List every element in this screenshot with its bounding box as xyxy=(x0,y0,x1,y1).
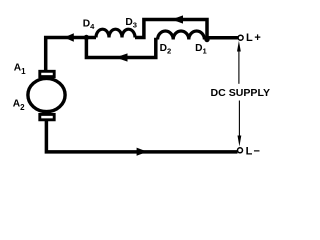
arrow current into armature (pointing left) xyxy=(64,33,74,41)
svg-text:A1: A1 xyxy=(14,63,26,76)
coil D2-D1 field winding xyxy=(158,31,205,40)
svg-text:D4: D4 xyxy=(83,19,95,32)
wire armature top lead and left horizontal to D4 xyxy=(46,38,96,72)
coil D4-D3 field winding xyxy=(96,29,135,37)
brush bottom rectangle xyxy=(40,114,54,119)
svg-text:DC SUPPLY: DC SUPPLY xyxy=(211,87,271,99)
dc supply annotation arrow up to L+ xyxy=(238,51,240,84)
arrow on mid rail (pointing left) xyxy=(116,53,128,61)
svg-text:L+: L+ xyxy=(246,32,263,44)
arrow on top rail (pointing left) xyxy=(172,15,184,23)
node junction dot at D1 right end xyxy=(204,37,209,42)
terminal L+ open circle xyxy=(238,35,243,40)
wire armature bottom lead and bottom rail to L- terminal xyxy=(46,120,237,152)
svg-text:D3: D3 xyxy=(125,17,137,30)
terminal L- open circle xyxy=(238,148,243,153)
arrow on bottom rail (pointing right) xyxy=(137,148,148,156)
svg-text:D2: D2 xyxy=(160,43,172,56)
node junction dot at D4 left end xyxy=(84,35,89,40)
wire junction to L+ terminal xyxy=(207,36,238,40)
wire D3 right end up to top rail, across, down to D1 junction xyxy=(135,20,207,40)
wire D2 left end down, mid rail left, up to D4 junction xyxy=(86,38,157,58)
svg-text:L−: L− xyxy=(246,146,262,158)
dc supply annotation arrow down to L- xyxy=(238,101,240,137)
svg-text:D1: D1 xyxy=(195,43,207,56)
brush top rectangle xyxy=(40,71,54,76)
svg-text:A2: A2 xyxy=(13,99,25,112)
motor armature circle xyxy=(28,78,65,111)
